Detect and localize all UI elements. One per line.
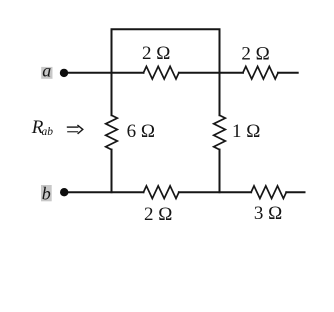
resistor 3 ohm (bottom right) bbox=[251, 186, 286, 199]
svg-text:Rab: Rab bbox=[31, 117, 54, 138]
node b terminal dot bbox=[60, 188, 68, 196]
wire right branch upper bbox=[219, 73, 221, 116]
wire top loop bbox=[112, 29, 220, 72]
wire left branch upper bbox=[111, 73, 113, 116]
resistor 6 ohm (left branch) bbox=[106, 115, 118, 149]
wire top right end bbox=[278, 72, 298, 74]
terminal label a bbox=[41, 61, 52, 81]
wire right branch lower bbox=[219, 150, 221, 193]
svg-text:3 Ω: 3 Ω bbox=[254, 203, 282, 224]
svg-text:a: a bbox=[42, 61, 51, 81]
resistor 2 ohm (bottom) bbox=[144, 186, 179, 199]
svg-text:2 Ω: 2 Ω bbox=[142, 43, 170, 64]
resistor 2 ohm (top middle) bbox=[144, 66, 179, 79]
wire node a to resistor bbox=[64, 72, 144, 74]
wire left branch lower bbox=[111, 150, 113, 193]
wire top middle to right branch bbox=[179, 72, 243, 74]
svg-text:b: b bbox=[42, 184, 51, 204]
wire bottom right end bbox=[286, 191, 304, 193]
resistor 2 ohm (top right) bbox=[243, 66, 278, 79]
svg-text:6 Ω: 6 Ω bbox=[127, 121, 155, 142]
terminal label b bbox=[41, 184, 52, 204]
svg-text:1 Ω: 1 Ω bbox=[232, 121, 260, 142]
wire node b to resistor bbox=[64, 191, 143, 193]
resistor 1 ohm (right branch) bbox=[214, 115, 226, 149]
svg-text:2 Ω: 2 Ω bbox=[144, 204, 172, 225]
arrow implies bbox=[67, 125, 83, 134]
node a terminal dot bbox=[60, 69, 68, 77]
svg-text:2 Ω: 2 Ω bbox=[241, 43, 269, 64]
wire bottom middle to right branch bbox=[179, 191, 251, 193]
